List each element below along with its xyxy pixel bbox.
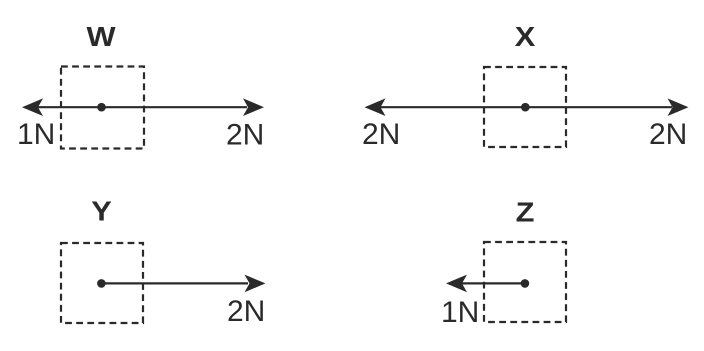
wire X force line [380, 106, 672, 108]
arrowhead W left (1N) [22, 98, 43, 116]
svg-text:Z: Z [516, 197, 535, 228]
arrowhead Z left (1N) [446, 275, 467, 293]
svg-text:2N: 2N [227, 295, 265, 328]
arrowhead Y right (2N) [245, 275, 266, 293]
svg-text:2N: 2N [226, 118, 264, 151]
box X (dashed square) [484, 67, 566, 147]
svg-text:2N: 2N [649, 118, 687, 151]
svg-text:2N: 2N [362, 118, 400, 151]
arrowhead W right (2N) [243, 98, 264, 116]
box Z (dashed square) [484, 242, 566, 322]
box W (dashed square) [61, 67, 144, 149]
svg-text:1N: 1N [17, 118, 55, 151]
node dot Z [521, 279, 530, 288]
arrowhead X left (2N) [365, 98, 386, 116]
node dot X [521, 103, 530, 112]
box Y (dashed square) [61, 243, 143, 323]
svg-text:W: W [86, 21, 115, 52]
arrowhead X right (2N) [668, 98, 689, 116]
node dot Y [97, 279, 106, 288]
svg-text:Y: Y [91, 196, 112, 227]
svg-text:X: X [515, 21, 536, 52]
wire Y force line [101, 282, 248, 284]
svg-text:1N: 1N [441, 296, 479, 329]
node dot W [97, 103, 106, 112]
wire W force line [38, 106, 247, 108]
wire Z force line [462, 282, 525, 284]
